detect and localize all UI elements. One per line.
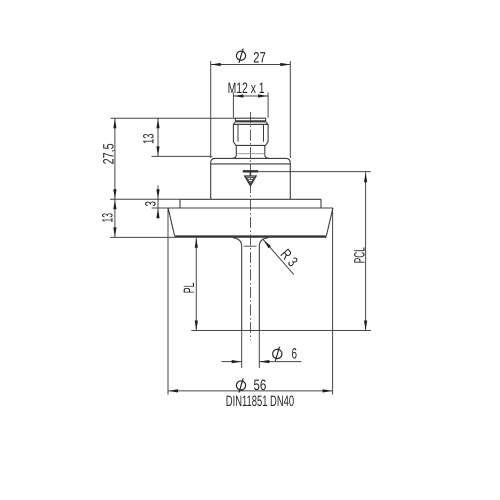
arrow d6 right	[259, 360, 269, 363]
svg-text:M12 x 1: M12 x 1	[228, 80, 265, 97]
wire extension line right of body (d27)	[289, 61, 291, 158]
wire extension line right M12	[267, 93, 269, 118]
probe left wall with fillet	[233, 238, 242, 331]
svg-text:27: 27	[253, 49, 266, 66]
arrow 27.5 top	[113, 118, 116, 128]
wire extension line neck bottom	[152, 155, 213, 157]
svg-text:3: 3	[143, 201, 160, 207]
weld symbol hatch	[248, 180, 254, 182]
neck tangent faint line	[238, 153, 266, 155]
arrow PCL bottom	[364, 321, 367, 331]
weld symbol outer triangle	[245, 176, 256, 186]
connector threaded section outer walls	[233, 124, 268, 145]
arrowheads	[113, 63, 367, 393]
neck wall right	[265, 145, 270, 158]
arrow R3 leader	[262, 239, 271, 249]
wire dim line d6 left tail	[222, 361, 242, 363]
wire extension line top of connector to left dims	[111, 117, 236, 119]
neck walls	[232, 145, 237, 158]
connector thread core line left	[237, 124, 239, 141]
svg-text:27,5: 27,5	[101, 143, 118, 164]
wire extension line probe tip level	[191, 330, 371, 332]
sensor body outline	[168, 118, 333, 330]
label diameter symbol 27	[236, 49, 245, 63]
svg-text:DIN11851 DN40: DIN11851 DN40	[226, 393, 294, 410]
arrow 27.5 bottom	[113, 189, 116, 199]
wire leader line R3	[263, 240, 294, 275]
wire extension line flange bottom to left dims	[110, 236, 175, 238]
arrow d27 right	[280, 63, 290, 66]
flange sealing face thick line	[175, 235, 327, 237]
wire dim line 3 lower tail	[157, 208, 159, 219]
connector chamfer trapezoid	[233, 122, 268, 125]
arrow 3 below	[156, 208, 159, 218]
wire dim line 13 upper	[157, 118, 159, 156]
wire extension line left of body (d27)	[210, 61, 212, 158]
weld symbol inner triangle	[247, 178, 255, 184]
wire dim line d56	[168, 390, 333, 392]
weld symbol	[243, 171, 258, 185]
wire dim line d6 right tail	[259, 361, 301, 363]
arrow d6 left	[232, 360, 242, 363]
arrow PL bottom	[195, 321, 198, 331]
arrow PCL top	[364, 172, 367, 182]
wire dim line M12	[233, 95, 268, 97]
wire dim line PL	[195, 238, 197, 331]
arrow d56 right	[323, 389, 333, 392]
collar step	[180, 199, 321, 208]
arrow 13-lower top	[113, 199, 116, 209]
arrow 13-upper bottom	[156, 146, 159, 156]
centerline vertical axis	[250, 112, 252, 340]
connector thread core line right	[263, 124, 265, 141]
main body outline d27	[211, 158, 291, 199]
svg-text:13: 13	[100, 213, 117, 223]
arrow PL top	[195, 238, 198, 248]
wire extension line probe left (d6)	[241, 331, 243, 368]
centerline horizontal dash at fillet level	[244, 245, 257, 247]
connector shoulder line	[233, 123, 268, 125]
svg-text:56: 56	[254, 377, 267, 394]
wire extension line body bottom to left dims	[110, 198, 180, 200]
wire dim line 27.5 and 13 left stack	[114, 118, 116, 237]
svg-text:PCL: PCL	[352, 247, 369, 263]
wire dim line diameter 27	[211, 64, 291, 66]
label diameter symbol 56	[236, 378, 245, 392]
wire leader line weld symbol to PCL	[258, 171, 371, 173]
svg-text:13: 13	[141, 134, 158, 145]
connector cap top edge	[235, 118, 265, 121]
wire dim line 3 upper tail	[157, 186, 159, 209]
arrow 3 above	[156, 189, 159, 199]
wire extension line cone right (d56)	[332, 208, 334, 395]
body chamfer line	[211, 163, 291, 165]
arrow 13-upper top	[156, 118, 159, 128]
arrow 13-lower bottom	[113, 227, 116, 237]
wire extension line probe right (d6)	[258, 331, 260, 368]
svg-text:PL: PL	[181, 283, 198, 294]
wire extension line left M12	[232, 93, 234, 118]
weld symbol stem	[249, 172, 251, 176]
arrow d56 left	[168, 389, 178, 392]
label diameter symbol 6	[273, 347, 282, 361]
svg-text:6: 6	[292, 345, 298, 362]
wire extension line cone left (d56)	[167, 208, 169, 395]
wire dim line PCL	[365, 172, 367, 330]
arrow d27 left	[211, 63, 221, 66]
cone flange	[168, 208, 333, 235]
weld symbol bar	[243, 170, 258, 172]
probe right wall with fillet	[259, 238, 268, 331]
wire extension line cone top to 3-dim	[152, 207, 169, 209]
arrow M12 left	[233, 94, 243, 97]
connector cap band	[235, 120, 265, 122]
arrow M12 right	[258, 94, 268, 97]
